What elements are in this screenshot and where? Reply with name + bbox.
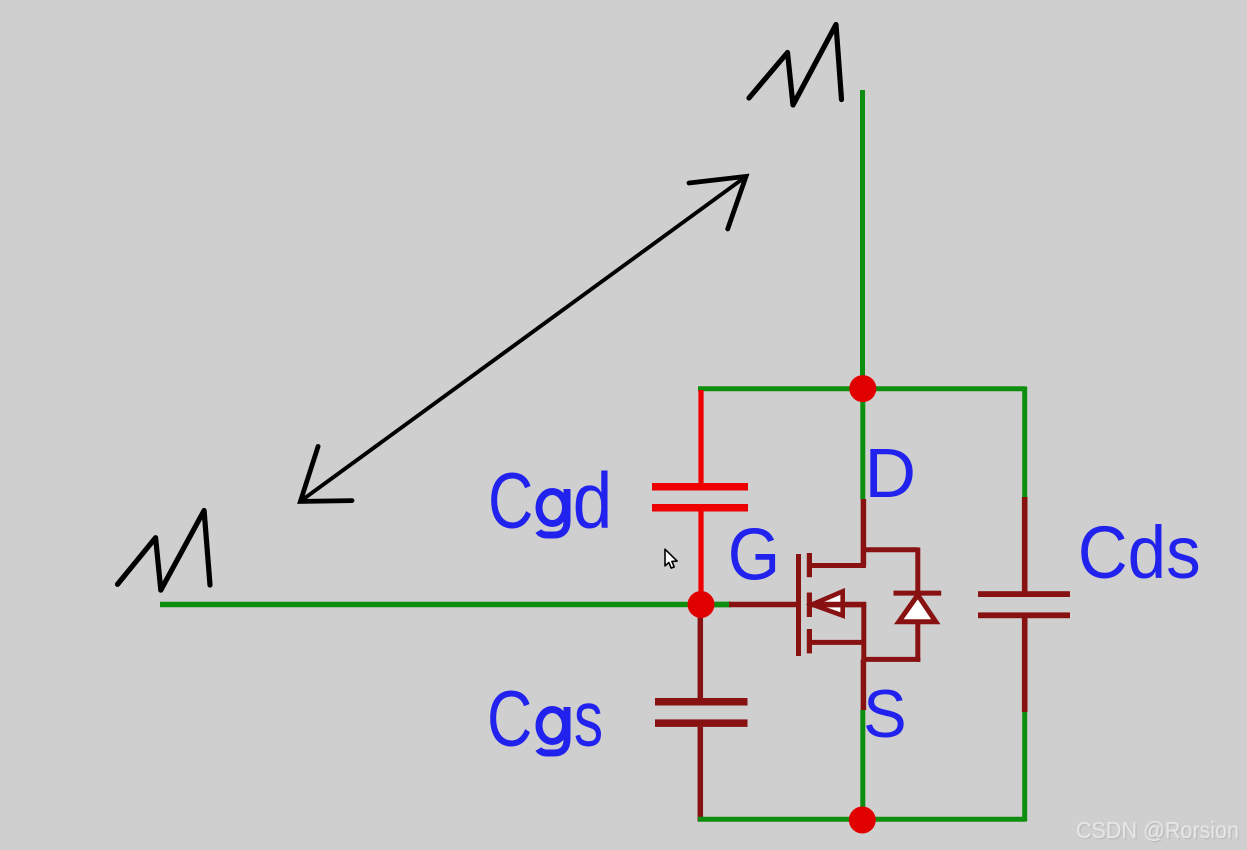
wire: bottom node horizontal (green) [698, 817, 1025, 822]
wire: drain lead (dark red) [861, 499, 867, 566]
off-page connector squiggle (top, net D) [749, 25, 842, 106]
label S [863, 677, 907, 752]
transistor Q1: body diode bottom horizontal [864, 657, 921, 662]
junction: gate node (red dot) [688, 591, 715, 618]
transistor Q1: channel segment middle [807, 593, 812, 618]
wire: gate stub right of junction (green) [713, 602, 731, 608]
svg-text:s: s [574, 674, 603, 762]
junction: drain node (red dot) [849, 375, 876, 402]
label D [865, 434, 917, 512]
label Cgs [487, 674, 603, 763]
transistor Q1: branch to body diode (top) [861, 547, 918, 552]
wire: Cgs bottom vertical (dark red) [698, 727, 704, 822]
svg-text:C: C [488, 458, 533, 545]
transistor Q1: source arrow horizontal [811, 602, 866, 608]
wire: Cgd top vertical (bright red) [698, 390, 703, 483]
svg-text:S: S [863, 677, 907, 752]
wire: right branch vertical bottom (green) [1022, 712, 1027, 822]
wire: right branch vertical top (green) [1022, 387, 1027, 498]
wire: source lead (dark red) [861, 659, 867, 710]
transistor Q1: body diode top vertical [915, 548, 920, 594]
off-page connector squiggle (left, net G) [118, 511, 211, 591]
transistor Q1: body diode cathode bar [894, 591, 942, 596]
wire: drain net vertical (green) [860, 90, 865, 389]
transistor Q1: body diode triangle [899, 595, 936, 622]
wire: Cgs top vertical (dark red) [698, 610, 704, 699]
wire: gate lead to MOSFET (dark red) [729, 602, 796, 608]
label Cds [1078, 512, 1201, 595]
transistor Q1: bottom channel horizontal [809, 640, 864, 645]
capacitor Cds [978, 591, 1070, 618]
capacitor Cgs [655, 698, 748, 727]
svg-text:C: C [487, 676, 532, 763]
svg-text:G: G [728, 513, 780, 595]
wire: drain node to MOSFET (green part) [860, 389, 865, 499]
wire: Cds top vertical (dark red) [1022, 497, 1028, 592]
transistor Q1: channel segment bottom [807, 629, 812, 653]
transistor Q1: N-channel MOSFET gate bar [796, 554, 801, 656]
watermark CSDN @Rorsion [1076, 817, 1241, 845]
label G [728, 513, 780, 595]
label Cgd [488, 457, 612, 546]
svg-text:CSDN @Rorsion: CSDN @Rorsion [1076, 817, 1239, 843]
wire: top node horizontal (green) [698, 386, 1025, 391]
transistor Q1: channel segment top [807, 553, 812, 577]
svg-text:Cds: Cds [1078, 512, 1201, 595]
wire: Cgd bottom vertical (bright red) [698, 512, 703, 601]
svg-text:D: D [865, 434, 917, 512]
transistor Q1: source-side vertical [861, 605, 866, 660]
wire: gate net horizontal (green) [160, 602, 731, 608]
transistor Q1: source arrow head (points to channel) [812, 591, 843, 615]
junction: source node (red dot) [849, 807, 876, 834]
wire: Cds bottom vertical (dark red) [1022, 618, 1028, 712]
annotation arrow (double-headed, black) [300, 176, 746, 501]
wire: source net vertical (green) [860, 710, 865, 819]
mouse cursor [665, 549, 677, 568]
capacitor Cgd [652, 483, 748, 512]
transistor Q1: drain horizontal [809, 563, 866, 568]
transistor Q1: body diode bottom vertical [915, 622, 920, 662]
svg-text:d: d [573, 457, 613, 545]
